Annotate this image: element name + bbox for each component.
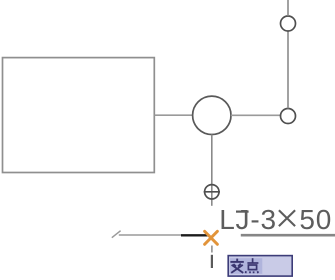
lamp symbol circle (circle-with-cross) xyxy=(205,185,219,199)
lower small circle node xyxy=(281,109,296,124)
leader oblique tick arrowhead xyxy=(112,231,121,238)
short vertical line below X (crossing line) xyxy=(211,246,213,253)
leader horizontal line xyxy=(119,234,181,236)
upper small circle node xyxy=(281,16,296,31)
lamp symbol horizontal bar xyxy=(204,191,220,193)
tooltip glyph dian (&#28857;) xyxy=(246,258,259,273)
label underline / leader shelf xyxy=(241,234,335,237)
transformer box (rectangle symbol) xyxy=(3,58,155,173)
tooltip text highlight xyxy=(230,258,262,274)
wire from pole circle to right node xyxy=(231,114,281,116)
tooltip glyph jiao (&#20132;) xyxy=(230,259,243,273)
intersection osnap marker X (orange) xyxy=(205,231,218,244)
wire from top edge to upper circle xyxy=(287,0,289,16)
rubber-band line segment (black) xyxy=(181,234,210,236)
wire from pole circle down to lamp symbol xyxy=(211,135,213,206)
vertical wire between small circles xyxy=(287,31,289,108)
svg-text:50: 50 xyxy=(299,204,332,235)
label J top bar (CAD font serif) xyxy=(236,211,249,213)
pole circle (big circle symbol) xyxy=(193,96,231,134)
wire from box to pole circle xyxy=(155,114,194,116)
osnap tooltip box xyxy=(228,256,292,277)
svg-text:LJ-3: LJ-3 xyxy=(219,204,277,235)
label multiplication sign (large CAD x) xyxy=(279,210,295,226)
